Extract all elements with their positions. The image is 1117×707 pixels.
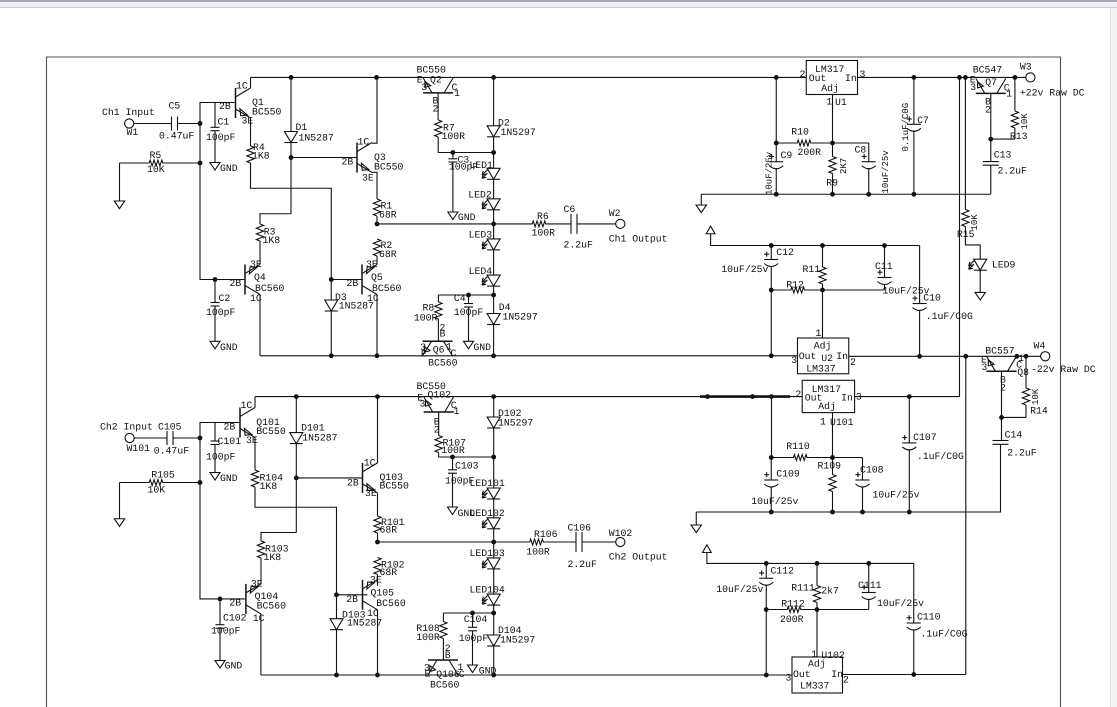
junction xyxy=(1015,354,1020,359)
wire xyxy=(295,397,297,433)
wire xyxy=(260,558,262,584)
wire xyxy=(254,438,256,471)
svg-text:1C: 1C xyxy=(236,81,248,92)
wire xyxy=(437,93,439,120)
svg-text:2B: 2B xyxy=(219,101,231,112)
svg-text:C1: C1 xyxy=(218,117,230,128)
resistor R2 xyxy=(373,239,396,260)
svg-text:In: In xyxy=(841,392,853,403)
resistor R13 xyxy=(1010,111,1030,142)
svg-text:1N5287: 1N5287 xyxy=(339,301,374,312)
diode D102 xyxy=(487,408,533,428)
wire xyxy=(290,77,292,131)
wire xyxy=(165,162,200,164)
diode D1 xyxy=(285,122,334,144)
resistor R110 xyxy=(786,441,810,460)
LED LED103 xyxy=(470,548,505,569)
junction xyxy=(334,673,339,678)
svg-text:R112: R112 xyxy=(781,599,805,610)
capacitor C106 xyxy=(568,522,598,570)
diode D103 xyxy=(330,609,382,629)
wire xyxy=(120,162,148,164)
wire xyxy=(1002,416,1027,418)
wire xyxy=(832,458,834,475)
capacitor C5 xyxy=(159,101,194,142)
diode D3 xyxy=(325,292,374,312)
capacitor C13 xyxy=(983,139,1027,194)
junction xyxy=(289,155,294,160)
svg-text:LED104: LED104 xyxy=(470,584,505,595)
svg-text:C112: C112 xyxy=(771,566,795,577)
svg-text:2: 2 xyxy=(843,675,849,686)
wire xyxy=(1001,371,1003,417)
transistor Q102 xyxy=(417,381,460,436)
node W102 port Ch2 Output xyxy=(609,528,668,563)
junction xyxy=(769,353,774,358)
svg-text:100R: 100R xyxy=(442,131,466,142)
ground xyxy=(215,661,242,672)
wire xyxy=(700,194,702,205)
svg-text:10K: 10K xyxy=(1031,388,1041,405)
ground xyxy=(448,507,476,519)
wire xyxy=(843,674,966,676)
resistor R102 xyxy=(374,558,405,578)
junction xyxy=(375,353,380,358)
svg-text:100pF: 100pF xyxy=(206,132,236,143)
svg-text:LED1: LED1 xyxy=(469,160,493,171)
svg-text:Q2: Q2 xyxy=(430,75,442,86)
svg-text:100pF: 100pF xyxy=(211,626,241,637)
resistor R107 xyxy=(435,436,466,456)
capacitor C103 xyxy=(445,457,479,507)
svg-text:LED3: LED3 xyxy=(469,229,493,240)
junction xyxy=(912,192,917,197)
wire xyxy=(443,639,450,662)
wire xyxy=(119,163,121,201)
svg-text:BC550: BC550 xyxy=(380,481,410,492)
wire xyxy=(493,499,495,518)
wire xyxy=(493,286,495,313)
wire xyxy=(438,294,493,296)
wire xyxy=(813,142,869,144)
capacitor C1 xyxy=(206,103,236,163)
resistor R15 xyxy=(957,210,980,241)
svg-text:0.47uF: 0.47uF xyxy=(159,131,194,142)
wire xyxy=(707,553,914,564)
svg-text:In: In xyxy=(845,73,857,84)
svg-text:10K: 10K xyxy=(1020,113,1030,130)
junction xyxy=(820,243,825,248)
capacitor C8 xyxy=(855,143,892,194)
wire xyxy=(296,477,362,488)
wire xyxy=(1014,128,1016,139)
wire xyxy=(807,289,885,291)
junction xyxy=(866,192,871,197)
wire xyxy=(330,280,332,301)
resistor R8 xyxy=(414,302,442,324)
junction xyxy=(491,150,496,155)
capacitor C112 xyxy=(716,563,794,675)
svg-text:Out: Out xyxy=(799,351,817,362)
resistor R105 xyxy=(147,470,175,496)
LED LED1 xyxy=(469,160,500,179)
transistor Q8 xyxy=(981,345,1029,393)
svg-text:C103: C103 xyxy=(455,461,479,472)
wire xyxy=(134,437,166,439)
svg-text:GND: GND xyxy=(220,342,238,353)
junction xyxy=(830,141,835,146)
wire ch2 -rail xyxy=(261,674,792,676)
svg-text:+22v Raw DC: +22v Raw DC xyxy=(1020,88,1085,99)
svg-text:3: 3 xyxy=(786,673,792,684)
svg-text:1N5297: 1N5297 xyxy=(503,311,538,322)
svg-text:Ch2 Output: Ch2 Output xyxy=(609,552,668,563)
junction xyxy=(375,222,380,227)
resistor R108 xyxy=(416,622,447,643)
diode D4 xyxy=(487,302,538,325)
svg-text:C7: C7 xyxy=(917,115,929,126)
junction xyxy=(769,394,774,399)
wire xyxy=(493,646,495,675)
svg-text:B: B xyxy=(440,329,446,340)
svg-text:LM337: LM337 xyxy=(800,681,830,692)
wire xyxy=(803,609,869,611)
svg-text:R6: R6 xyxy=(537,211,549,222)
svg-text:LED9: LED9 xyxy=(992,259,1016,270)
wire xyxy=(832,95,834,144)
capacitor C12 xyxy=(721,246,794,356)
junction xyxy=(917,354,922,359)
LED LED102 xyxy=(470,508,505,529)
svg-text:68R: 68R xyxy=(380,567,398,578)
svg-text:10uF/25v: 10uF/25v xyxy=(721,264,768,275)
svg-text:10K: 10K xyxy=(147,164,165,175)
svg-text:BC560: BC560 xyxy=(257,601,287,612)
svg-text:0.1uF/C0G: 0.1uF/C0G xyxy=(901,103,911,152)
wire thick xyxy=(700,395,790,398)
svg-text:Adj: Adj xyxy=(814,341,832,352)
svg-text:W2: W2 xyxy=(609,208,621,219)
wire xyxy=(120,482,148,484)
svg-text:10K: 10K xyxy=(970,214,980,231)
svg-text:Ch2 Input: Ch2 Input xyxy=(100,422,153,433)
svg-text:GND: GND xyxy=(458,212,476,223)
svg-text:R5: R5 xyxy=(150,150,162,161)
wire xyxy=(711,234,920,246)
wire xyxy=(259,241,261,265)
LED LED2 xyxy=(468,190,500,210)
ground xyxy=(468,665,497,677)
svg-text:BC550: BC550 xyxy=(252,106,282,117)
svg-text:GND: GND xyxy=(220,473,238,484)
wire xyxy=(991,138,1015,140)
wire xyxy=(377,533,379,542)
capacitor C14 xyxy=(909,417,1008,512)
diode D104 xyxy=(487,625,535,646)
wire xyxy=(336,630,338,675)
wire xyxy=(290,143,292,214)
svg-text:2B: 2B xyxy=(229,598,241,609)
power arrow xyxy=(706,226,715,234)
diode D2 xyxy=(487,117,536,138)
power arrow xyxy=(114,201,124,209)
svg-text:2K7: 2K7 xyxy=(839,158,849,174)
svg-text:Q6: Q6 xyxy=(433,344,445,355)
junction xyxy=(1024,354,1029,359)
svg-text:2B: 2B xyxy=(224,421,236,432)
svg-text:3: 3 xyxy=(860,69,866,80)
svg-text:2: 2 xyxy=(850,357,856,368)
junction xyxy=(375,394,380,399)
transistor Q3 xyxy=(357,136,404,183)
svg-text:3: 3 xyxy=(791,355,797,366)
wire v2 raw -22 feed xyxy=(965,356,967,674)
svg-text:1: 1 xyxy=(816,328,822,339)
svg-text:C13: C13 xyxy=(994,150,1012,161)
svg-text:BC550: BC550 xyxy=(374,161,404,172)
wire output2 xyxy=(378,541,528,543)
svg-text:W102: W102 xyxy=(609,528,633,539)
wire xyxy=(165,482,200,484)
svg-text:10uF/25v: 10uF/25v xyxy=(881,150,891,194)
svg-text:2: 2 xyxy=(985,104,991,115)
node W1 port Ch1 Input xyxy=(102,107,155,138)
capacitor C104 xyxy=(459,613,489,665)
wire xyxy=(376,256,378,265)
wire gnd rail 2 xyxy=(696,511,909,513)
svg-text:.1uF/C0G: .1uF/C0G xyxy=(921,629,968,640)
svg-text:C105: C105 xyxy=(158,422,182,433)
node W2 port Ch1 Output xyxy=(609,208,668,245)
svg-text:C: C xyxy=(459,669,465,680)
junction xyxy=(988,137,993,142)
junction xyxy=(198,480,203,485)
wire xyxy=(438,412,440,436)
svg-text:Q105: Q105 xyxy=(371,587,395,598)
wire xyxy=(437,295,439,302)
capacitor C101 xyxy=(206,423,241,473)
svg-text:BC560: BC560 xyxy=(430,679,460,690)
junction xyxy=(198,121,203,126)
junction xyxy=(774,192,779,197)
wire xyxy=(200,423,245,599)
wire xyxy=(771,289,789,291)
wire xyxy=(493,605,495,635)
svg-text:1: 1 xyxy=(1018,353,1024,364)
svg-text:BC557: BC557 xyxy=(985,345,1015,356)
svg-text:1: 1 xyxy=(454,406,460,417)
wire xyxy=(964,77,966,209)
junction xyxy=(491,222,496,227)
wire -20v rail xyxy=(260,355,798,357)
svg-text:Adj: Adj xyxy=(821,83,839,94)
svg-text:100pF: 100pF xyxy=(459,633,489,644)
junction xyxy=(830,192,835,197)
svg-text:3E: 3E xyxy=(242,116,254,127)
wire xyxy=(261,533,296,542)
svg-text:C5: C5 xyxy=(169,101,181,112)
junction xyxy=(289,75,294,80)
svg-text:2B: 2B xyxy=(230,278,242,289)
svg-text:1K8: 1K8 xyxy=(252,151,270,162)
junction xyxy=(882,243,887,248)
svg-text:2B: 2B xyxy=(342,157,354,168)
resistor R106 xyxy=(526,529,557,557)
svg-text:LM337: LM337 xyxy=(806,364,836,375)
svg-text:C10: C10 xyxy=(923,292,941,303)
resistor R10 xyxy=(791,126,821,158)
wire xyxy=(493,180,495,199)
svg-text:3E: 3E xyxy=(366,259,378,270)
svg-text:1K8: 1K8 xyxy=(263,235,281,246)
wire xyxy=(493,325,495,356)
svg-text:1N5287: 1N5287 xyxy=(299,133,334,144)
junction xyxy=(912,75,917,80)
wire xyxy=(377,610,379,675)
resistor R109 xyxy=(818,461,842,492)
wire xyxy=(493,569,495,594)
svg-text:C6: C6 xyxy=(564,204,576,215)
junction xyxy=(491,293,496,298)
junction xyxy=(911,672,916,677)
wire xyxy=(548,223,571,225)
svg-text:10uF/25v: 10uF/25v xyxy=(764,151,774,195)
capacitor C3 xyxy=(448,153,478,213)
wire xyxy=(493,137,495,169)
svg-text:R11: R11 xyxy=(803,264,821,275)
wire xyxy=(776,142,795,144)
capacitor C108 xyxy=(855,458,919,513)
svg-text:GND: GND xyxy=(479,666,497,677)
svg-text:3E: 3E xyxy=(370,575,382,586)
svg-text:R106: R106 xyxy=(534,529,558,540)
junction xyxy=(198,436,203,441)
ground xyxy=(210,473,238,485)
resistor R12 xyxy=(786,280,806,293)
svg-text:Q4: Q4 xyxy=(254,272,266,283)
ground xyxy=(210,163,238,175)
svg-text:C12: C12 xyxy=(776,247,794,258)
wire xyxy=(178,123,200,125)
svg-text:10uF/25v: 10uF/25v xyxy=(877,598,924,609)
svg-text:LED2: LED2 xyxy=(468,190,492,201)
transistor Q106 xyxy=(424,660,465,690)
svg-text:R10: R10 xyxy=(791,126,809,137)
svg-text:100R: 100R xyxy=(416,632,440,643)
svg-text:C110: C110 xyxy=(917,612,941,623)
resistor R104 xyxy=(251,470,283,492)
svg-text:In: In xyxy=(831,669,843,680)
svg-text:3E: 3E xyxy=(362,173,374,184)
junction xyxy=(451,150,456,155)
junction xyxy=(450,455,455,460)
svg-text:2.2uF: 2.2uF xyxy=(568,559,598,570)
wire xyxy=(832,413,834,458)
wire xyxy=(771,457,791,459)
wire xyxy=(259,295,261,356)
transistor Q5 xyxy=(347,259,402,304)
wire xyxy=(965,227,980,260)
wire xyxy=(832,492,834,513)
regulator U102 LM337 xyxy=(786,649,850,693)
svg-text:W4: W4 xyxy=(1034,341,1046,352)
wire raw feed xyxy=(855,396,960,398)
svg-text:1N5287: 1N5287 xyxy=(347,617,382,628)
wire xyxy=(990,93,992,139)
svg-text:U101: U101 xyxy=(830,417,854,428)
svg-text:C104: C104 xyxy=(464,614,488,625)
svg-text:Ch1 Output: Ch1 Output xyxy=(609,234,668,245)
svg-text:1C: 1C xyxy=(364,457,376,468)
svg-text:R110: R110 xyxy=(786,441,810,452)
LED LED104 xyxy=(470,584,505,605)
regulator U2 LM337 xyxy=(791,328,856,375)
wire xyxy=(295,444,297,533)
wire output xyxy=(377,223,530,225)
svg-text:200R: 200R xyxy=(798,147,822,158)
svg-text:100R: 100R xyxy=(532,228,556,239)
wire raw +22v xyxy=(858,76,1026,78)
junction xyxy=(963,75,968,80)
svg-text:2: 2 xyxy=(1000,382,1006,393)
wire xyxy=(493,428,495,488)
svg-text:3: 3 xyxy=(982,362,988,373)
svg-text:D1: D1 xyxy=(296,122,308,133)
svg-text:In: In xyxy=(836,351,848,362)
resistor R7 xyxy=(435,120,466,142)
svg-text:U1: U1 xyxy=(835,97,847,108)
junction xyxy=(830,455,835,460)
capacitor C4 xyxy=(454,293,484,341)
svg-text:1N5297: 1N5297 xyxy=(498,417,533,428)
wire xyxy=(832,143,834,157)
power arrow xyxy=(691,525,701,533)
wire xyxy=(493,529,495,558)
svg-text:68R: 68R xyxy=(380,524,398,535)
capacitor C9 xyxy=(764,77,792,195)
wire xyxy=(250,77,252,88)
svg-text:1N5287: 1N5287 xyxy=(302,432,337,443)
svg-text:BC550: BC550 xyxy=(256,426,286,437)
wire xyxy=(439,453,494,458)
wire xyxy=(260,214,291,224)
wire xyxy=(583,541,616,543)
svg-text:2.2uF: 2.2uF xyxy=(1007,447,1037,458)
wire xyxy=(438,137,493,153)
svg-text:1: 1 xyxy=(1006,88,1012,99)
power arrow xyxy=(703,545,712,553)
wire xyxy=(493,77,495,125)
resistor R6 xyxy=(530,211,555,239)
svg-text:C107: C107 xyxy=(913,432,937,443)
transistor Q103 xyxy=(363,457,410,499)
svg-text:R13: R13 xyxy=(1010,131,1028,142)
svg-text:C109: C109 xyxy=(776,469,800,480)
wire gnd rail xyxy=(701,193,991,195)
svg-text:100R: 100R xyxy=(414,313,438,324)
svg-text:0.47uF: 0.47uF xyxy=(154,446,189,457)
wire xyxy=(1025,405,1027,417)
junction xyxy=(769,455,774,460)
transistor Q2 xyxy=(417,65,461,115)
transistor Q105 xyxy=(346,575,406,620)
wire raw -22v xyxy=(849,355,1041,357)
svg-text:100R: 100R xyxy=(526,546,550,557)
resistor R9 xyxy=(826,157,849,189)
wire xyxy=(816,603,818,610)
svg-text:1C: 1C xyxy=(358,136,370,147)
svg-text:Q7: Q7 xyxy=(985,77,997,88)
